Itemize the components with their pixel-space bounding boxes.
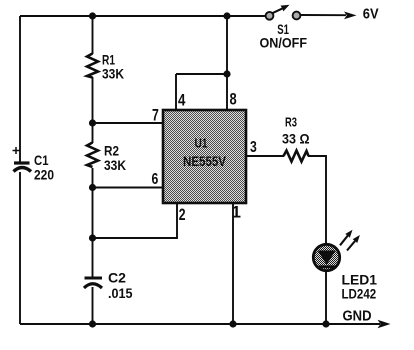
svg-text:6V: 6V — [363, 7, 379, 23]
svg-text:ON/OFF: ON/OFF — [260, 35, 308, 51]
wire LED to ground — [325, 271, 327, 324]
wire pin 2 — [93, 203, 178, 238]
node junction pins 4-8 — [223, 70, 230, 77]
svg-text:C2: C2 — [108, 270, 126, 286]
LED1 emission arrow 1 — [340, 235, 349, 246]
LED1 emission arrow 2 — [347, 240, 356, 251]
svg-text:R3: R3 — [285, 115, 297, 130]
wire left rail lower — [19, 172, 21, 324]
switch S1 lever — [272, 8, 283, 13]
node junction LED / bottom rail — [322, 320, 329, 327]
svg-text:2: 2 — [179, 205, 186, 224]
LED1 body — [313, 244, 339, 270]
svg-text:6: 6 — [152, 171, 159, 188]
capacitor C1 curved plate — [14, 168, 32, 172]
LED1 diode triangle — [318, 251, 336, 265]
capacitor C2 curved plate — [84, 284, 102, 288]
node junction C2 / bottom rail — [89, 320, 96, 327]
wire to 6V supply — [301, 14, 346, 16]
svg-text:33 Ω: 33 Ω — [282, 131, 310, 147]
LED1 cathode bar — [319, 265, 335, 268]
resistor R3 — [284, 151, 309, 162]
switch S1 lever arrowhead — [281, 5, 290, 12]
wire pin 1 — [232, 203, 234, 324]
svg-text:3: 3 — [250, 139, 257, 156]
wire pin 6 — [93, 187, 164, 189]
svg-text:GND: GND — [343, 309, 372, 325]
node junction top rail / R1 — [89, 12, 96, 19]
svg-text:C1: C1 — [34, 153, 49, 168]
wire top rail — [20, 15, 265, 17]
wire reset branch — [176, 16, 227, 110]
capacitor C1 top plate — [14, 161, 30, 164]
resistor R2 — [87, 143, 98, 168]
GND rail arrowhead — [378, 320, 391, 328]
svg-text:33K: 33K — [104, 157, 126, 173]
wire middle vertical — [92, 16, 94, 324]
svg-text:220: 220 — [34, 168, 54, 183]
svg-text:8: 8 — [230, 90, 237, 109]
svg-text:33K: 33K — [102, 66, 124, 82]
wire pin 7 — [93, 122, 164, 124]
node junction pin 1 / bottom rail — [229, 320, 236, 327]
svg-text:4: 4 — [178, 91, 186, 110]
node junction pin 7 — [89, 119, 96, 126]
wire bottom rail — [20, 323, 380, 325]
svg-text:.015: .015 — [108, 285, 133, 301]
capacitor C1 plus sign — [13, 147, 20, 154]
svg-text:LD242: LD242 — [342, 286, 377, 302]
node junction top rail / reset branch — [223, 12, 230, 19]
switch S1 terminal A — [266, 12, 274, 20]
IC U1 NE555V — [163, 110, 246, 203]
switch S1 terminal B — [293, 12, 301, 20]
svg-text:U1: U1 — [195, 137, 208, 151]
capacitor C2 top plate — [85, 277, 103, 280]
6V supply arrowhead — [344, 12, 357, 20]
svg-text:7: 7 — [152, 106, 159, 125]
node junction pin 2 — [89, 234, 96, 241]
svg-text:1: 1 — [232, 203, 241, 222]
resistor R1 — [87, 54, 98, 78]
wire pin 3 — [246, 156, 326, 243]
svg-text:NE555V: NE555V — [183, 154, 226, 169]
wire left rail upper — [19, 16, 21, 162]
node junction pin 6 — [89, 184, 96, 191]
